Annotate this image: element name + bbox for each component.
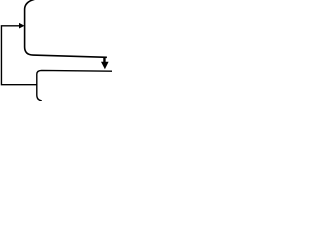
right arrowhead pointing at vertical line — [19, 23, 25, 29]
down arrowhead at end of connector — [101, 62, 109, 69]
wire: S-shaped connector from bottom edge up and off to the right edge — [37, 70, 112, 100]
wire: connector from top edge, down left bend, long shallow line to right — [25, 0, 107, 57]
wire: left C-shaped connector with right-pointing arrow — [1, 26, 37, 85]
down arrow shaft — [103, 57, 105, 62]
